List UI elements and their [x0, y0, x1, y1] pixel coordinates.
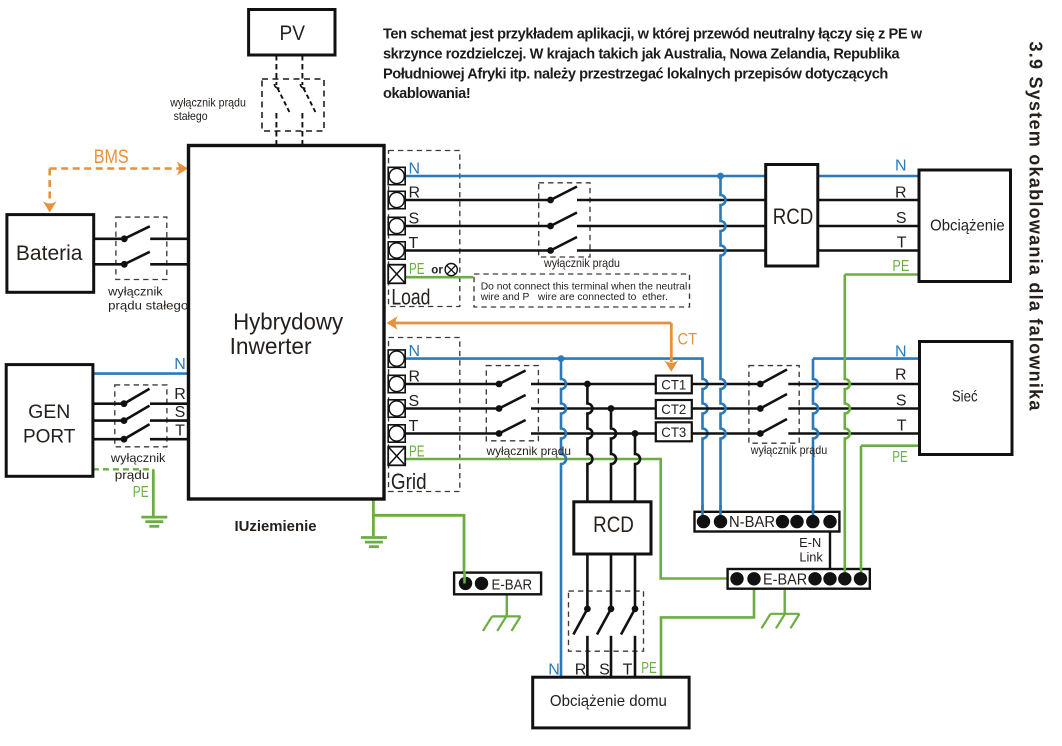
svg-text:wyłącznik prądu: wyłącznik prądu — [543, 256, 620, 270]
svg-text:GEN: GEN — [28, 401, 70, 423]
svg-text:PE: PE — [409, 443, 425, 460]
svg-text:Link: Link — [799, 550, 823, 565]
svg-text:Ten schemat jest przykładem ap: Ten schemat jest przykładem aplikacji, w… — [383, 27, 923, 43]
svg-text:CT2: CT2 — [661, 401, 686, 417]
svg-text:R: R — [174, 386, 186, 403]
svg-text:E-N: E-N — [799, 535, 821, 550]
svg-text:S: S — [896, 210, 907, 227]
svg-text:S: S — [409, 210, 420, 227]
svg-text:T: T — [623, 662, 633, 679]
svg-text:PE: PE — [409, 261, 425, 278]
svg-text:PE: PE — [892, 258, 909, 275]
svg-text:stałego: stałego — [174, 109, 208, 123]
svg-text:R: R — [409, 184, 421, 201]
svg-text:Load: Load — [391, 284, 430, 309]
svg-text:skrzynce rozdzielczej. W kraja: skrzynce rozdzielczej. W krajach takich … — [383, 46, 901, 62]
svg-text:wyłącznik: wyłącznik — [110, 451, 166, 465]
svg-text:Hybrydowy: Hybrydowy — [233, 309, 343, 335]
svg-text:PE: PE — [892, 449, 908, 466]
svg-text:Bateria: Bateria — [16, 242, 83, 265]
svg-text:CT1: CT1 — [661, 377, 686, 393]
svg-text:prądu stałego: prądu stałego — [108, 298, 188, 312]
svg-text:N: N — [548, 662, 560, 679]
svg-text:N: N — [174, 356, 186, 373]
svg-text:S: S — [896, 392, 907, 409]
svg-text:or: or — [431, 264, 443, 276]
svg-text:Inwerter: Inwerter — [230, 333, 312, 359]
svg-text:PV: PV — [280, 22, 306, 45]
svg-text:S: S — [409, 393, 420, 410]
svg-text:PE: PE — [133, 484, 149, 501]
svg-text:S: S — [599, 662, 610, 679]
svg-text:IUziemienie: IUziemienie — [235, 518, 317, 535]
svg-text:R: R — [575, 662, 587, 679]
svg-text:N: N — [895, 157, 907, 174]
svg-text:T: T — [897, 234, 907, 251]
svg-text:CT: CT — [678, 329, 698, 348]
svg-text:R: R — [895, 185, 907, 202]
svg-text:Sieć: Sieć — [952, 388, 978, 405]
svg-text:prądu: prądu — [115, 468, 150, 482]
svg-text:Do not connect this terminal w: Do not connect this terminal when the ne… — [481, 282, 688, 293]
svg-text:PORT: PORT — [23, 426, 76, 447]
svg-text:N-BAR: N-BAR — [729, 514, 775, 531]
svg-text:wire and P wire are connecte: wire and P wire are connected to ether. — [480, 292, 668, 303]
svg-text:Grid: Grid — [391, 469, 427, 494]
svg-text:wyłącznik prądu: wyłącznik prądu — [169, 96, 246, 110]
svg-text:CT3: CT3 — [661, 424, 686, 440]
svg-text:E-BAR: E-BAR — [492, 576, 533, 593]
svg-text:T: T — [409, 418, 419, 435]
svg-text:N: N — [409, 160, 421, 177]
svg-text:Obciążenie: Obciążenie — [930, 218, 1005, 235]
svg-text:RCD: RCD — [773, 204, 814, 229]
svg-text:Południowej Afryki itp. należy: Południowej Afryki itp. należy przestrze… — [383, 66, 888, 82]
svg-text:RCD: RCD — [593, 512, 634, 537]
svg-text:T: T — [175, 423, 185, 440]
svg-text:wyłącznik: wyłącznik — [107, 284, 163, 298]
svg-text:okablowania!: okablowania! — [383, 86, 470, 102]
svg-text:wyłącznik prądu: wyłącznik prądu — [486, 444, 571, 458]
svg-text:3.9 System okablowania dla fal: 3.9 System okablowania dla falownika — [1026, 42, 1046, 412]
svg-text:N: N — [409, 343, 421, 360]
svg-text:Obciążenie domu: Obciążenie domu — [550, 693, 667, 710]
svg-text:T: T — [409, 235, 419, 252]
svg-text:S: S — [175, 404, 186, 421]
svg-text:BMS: BMS — [94, 147, 129, 168]
svg-text:T: T — [897, 418, 907, 435]
svg-text:wyłącznik prądu: wyłącznik prądu — [750, 443, 827, 457]
svg-text:R: R — [409, 368, 421, 385]
svg-text:E-BAR: E-BAR — [763, 571, 807, 588]
svg-text:N: N — [895, 344, 907, 361]
svg-text:R: R — [895, 367, 907, 384]
svg-text:PE: PE — [641, 660, 657, 677]
